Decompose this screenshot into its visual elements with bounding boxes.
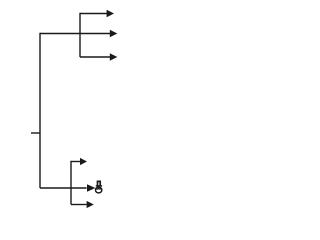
arrowhead A5 bbox=[87, 184, 95, 192]
arrowhead A6 bbox=[87, 201, 94, 208]
wire bbox=[40, 33, 110, 35]
wire bbox=[39, 33, 41, 188]
arrowhead A1 bbox=[107, 10, 114, 17]
wire bbox=[70, 161, 72, 205]
wire bbox=[79, 13, 81, 57]
flask neck bbox=[98, 181, 101, 186]
flask body bbox=[95, 187, 101, 193]
flask liquid bbox=[96, 187, 102, 190]
arrowhead A2 bbox=[110, 30, 118, 37]
wire bbox=[40, 187, 87, 189]
flask flange bbox=[96, 185, 102, 187]
wire bbox=[71, 204, 87, 206]
wire bbox=[80, 13, 107, 15]
flask icon bbox=[95, 181, 102, 193]
arrowhead A3 bbox=[110, 53, 118, 60]
node tick bbox=[31, 132, 40, 134]
wire bbox=[71, 161, 81, 163]
arrowhead A4 bbox=[80, 158, 87, 165]
wire bbox=[80, 56, 110, 58]
